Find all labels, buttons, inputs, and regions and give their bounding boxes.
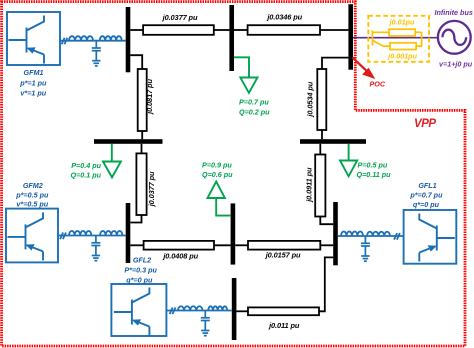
svg-text:j0.0817 pu: j0.0817 pu: [145, 79, 154, 115]
wire bus B to line Z2: [234, 29, 248, 31]
grid branch right link: [421, 32, 423, 47]
converter GFM1 box: [7, 12, 60, 65]
load L4 wire (bus E): [348, 144, 350, 161]
wire Z1 to bus B: [214, 29, 230, 31]
svg-text:j0.0346 pu: j0.0346 pu: [266, 13, 302, 22]
converter GFL2 box: [111, 284, 166, 336]
svg-text:j0.0157 pu: j0.0157 pu: [265, 251, 301, 260]
svg-text:q*=0 pu: q*=0 pu: [413, 200, 440, 209]
load L1 wire (bus B): [234, 57, 249, 77]
infinite bus source circle: [438, 21, 471, 54]
load L3 arrow (up, bus G): [208, 182, 225, 199]
svg-text:j0.0377 pu: j0.0377 pu: [147, 171, 156, 207]
svg-text:GFM2: GFM2: [23, 181, 43, 190]
load L1 arrow: [240, 78, 257, 93]
svg-text:v*=0.5 pu: v*=0.5 pu: [16, 200, 48, 209]
bus F (bottom-left): [126, 203, 131, 263]
line impedance Z5 j0.0377 pu (vertical): [136, 153, 146, 215]
load L2 arrow: [103, 162, 121, 178]
GFM1 inductor 1: [69, 36, 93, 40]
wire bus A to line Z1: [130, 29, 143, 31]
switch on lower branch: [372, 40, 383, 46]
converter GFL1 box: [404, 210, 457, 264]
svg-text:j0.011 pu: j0.011 pu: [268, 321, 300, 330]
wire bus F to line Z7: [130, 244, 143, 246]
svg-text:Infinite bus: Infinite bus: [435, 8, 473, 17]
GFM2 inductor 1: [69, 231, 91, 236]
svg-text:GFL2: GFL2: [133, 256, 151, 265]
GFM2 inductor 2: [100, 231, 122, 236]
svg-text:GFL1: GFL1: [418, 181, 436, 190]
converter GFM2 box: [6, 209, 58, 263]
line impedance Z7 j0.0408 pu: [144, 241, 214, 250]
GFM2 filter wire: [58, 235, 126, 237]
GFL1 inductor 1: [341, 232, 363, 236]
bus B (top-middle): [229, 5, 234, 71]
wire Z9 to bus H: [319, 257, 333, 311]
GFL2 inductor 1: [178, 306, 203, 310]
line impedance Z9 j0.011 pu: [248, 307, 319, 315]
svg-text:P=0.7 pu: P=0.7 pu: [239, 97, 269, 106]
svg-text:j0.0377 pu: j0.0377 pu: [162, 13, 198, 22]
bus C (top-right): [348, 4, 353, 70]
svg-text:p*=1 pu: p*=1 pu: [19, 78, 47, 87]
svg-text:p*=0.7 pu: p*=0.7 pu: [409, 191, 443, 200]
load L2 wire (bus D): [111, 144, 113, 162]
grid branch left link: [371, 30, 373, 45]
svg-text:j0.0408 pu: j0.0408 pu: [162, 252, 198, 261]
transistor GFL1 (mirrored): [419, 214, 455, 262]
wire bus A tap to line Z3: [130, 55, 142, 69]
svg-text:P=0.4 pu: P=0.4 pu: [71, 161, 101, 170]
bus D (mid-left, horizontal): [94, 139, 163, 144]
svg-text:j0.0911 pu: j0.0911 pu: [305, 167, 314, 203]
svg-text:v*=1 pu: v*=1 pu: [20, 88, 46, 97]
GFL2 shunt capacitor: [201, 311, 210, 336]
sine wave: [443, 30, 467, 45]
GFM2 shunt capacitor: [91, 236, 100, 261]
wire to resistor R1: [372, 31, 389, 33]
GFL1 filter wire: [338, 235, 404, 237]
POC wire (purple): [353, 37, 438, 39]
bus A (top-left): [126, 7, 131, 72]
line impedance Z8 j0.0157 pu: [248, 241, 320, 250]
GFM1 inductor 2: [100, 36, 122, 40]
wire bus C tap to line Z4: [322, 58, 348, 69]
load L4 arrow: [340, 161, 357, 177]
bus G (bottom-middle): [231, 203, 236, 264]
wire Z5 to bus F: [130, 215, 141, 223]
svg-text:j0.01pu: j0.01pu: [389, 17, 415, 26]
wire Z6 to bus H: [320, 217, 333, 225]
svg-text:p*=0.5 pu: p*=0.5 pu: [15, 190, 49, 199]
wire Z2 to bus C: [320, 29, 348, 31]
svg-text:P*=0.3 pu: P*=0.3 pu: [124, 266, 157, 275]
line impedance Z3 j0.0817 pu (vertical): [138, 69, 147, 131]
svg-text:j0.001pu: j0.001pu: [387, 52, 417, 61]
POC arrow: [353, 58, 367, 71]
wire bus I to line Z9: [236, 310, 248, 312]
wire Z8 to bus H: [320, 244, 333, 246]
svg-text:P=0.5 pu: P=0.5 pu: [358, 161, 388, 170]
GFM1 shunt capacitor: [92, 41, 101, 66]
GFL1 shunt capacitor: [361, 236, 370, 261]
wire bus E to line Z6: [319, 144, 321, 155]
svg-text:VPP: VPP: [414, 118, 436, 130]
bus E (mid-right, horizontal): [300, 139, 366, 144]
GFL2 inductor 2: [208, 306, 227, 310]
wire Z4 to bus E: [321, 130, 323, 139]
svg-text:q*=0 pu: q*=0 pu: [126, 276, 153, 285]
GFL1 connection mark: [394, 233, 400, 240]
GFM2 connection mark: [60, 233, 66, 240]
svg-text:Q=0.2 pu: Q=0.2 pu: [239, 108, 270, 117]
line impedance Z2 j0.0346 pu: [248, 25, 320, 35]
wire bus D to line Z5: [141, 144, 143, 154]
svg-text:Q=0.1 pu: Q=0.1 pu: [70, 170, 101, 179]
load L3 wire: [216, 198, 230, 216]
transistor GFL2: [114, 288, 149, 336]
GFL1 inductor 2: [367, 232, 390, 236]
bus H (bottom-right): [333, 202, 338, 265]
wire bus G to line Z8: [235, 244, 248, 246]
svg-text:GFM1: GFM1: [24, 68, 44, 77]
resistor j0.001pu: [390, 43, 416, 50]
svg-text:Q=0.11 pu: Q=0.11 pu: [357, 170, 392, 179]
line impedance Z1 j0.0377 pu: [143, 25, 214, 35]
svg-text:P=0.9 pu: P=0.9 pu: [202, 160, 232, 169]
svg-text:POC: POC: [370, 79, 386, 88]
resistor j0.01pu: [389, 29, 415, 36]
GFL2 connection mark: [170, 308, 176, 315]
line impedance Z4 j0.0534 pu (vertical): [317, 69, 326, 130]
transistor GFM1: [9, 16, 45, 64]
svg-text:v=1+j0 pu: v=1+j0 pu: [439, 60, 473, 69]
svg-text:Q=0.6 pu: Q=0.6 pu: [202, 170, 233, 179]
bus I (bottom GFL2 bus): [232, 278, 237, 340]
svg-text:j0.0534 pu: j0.0534 pu: [306, 81, 315, 117]
GFM1 filter wire: [60, 40, 126, 42]
GFL2 filter wire: [166, 310, 231, 312]
wire Z3 to bus D: [141, 131, 143, 139]
GFM1 connection mark: [62, 38, 68, 45]
grid impedance dashed box: [368, 16, 429, 62]
transistor GFM2: [8, 212, 44, 260]
line impedance Z6 j0.0911 pu (vertical): [315, 155, 325, 217]
wire Z7 to bus G: [214, 244, 231, 246]
